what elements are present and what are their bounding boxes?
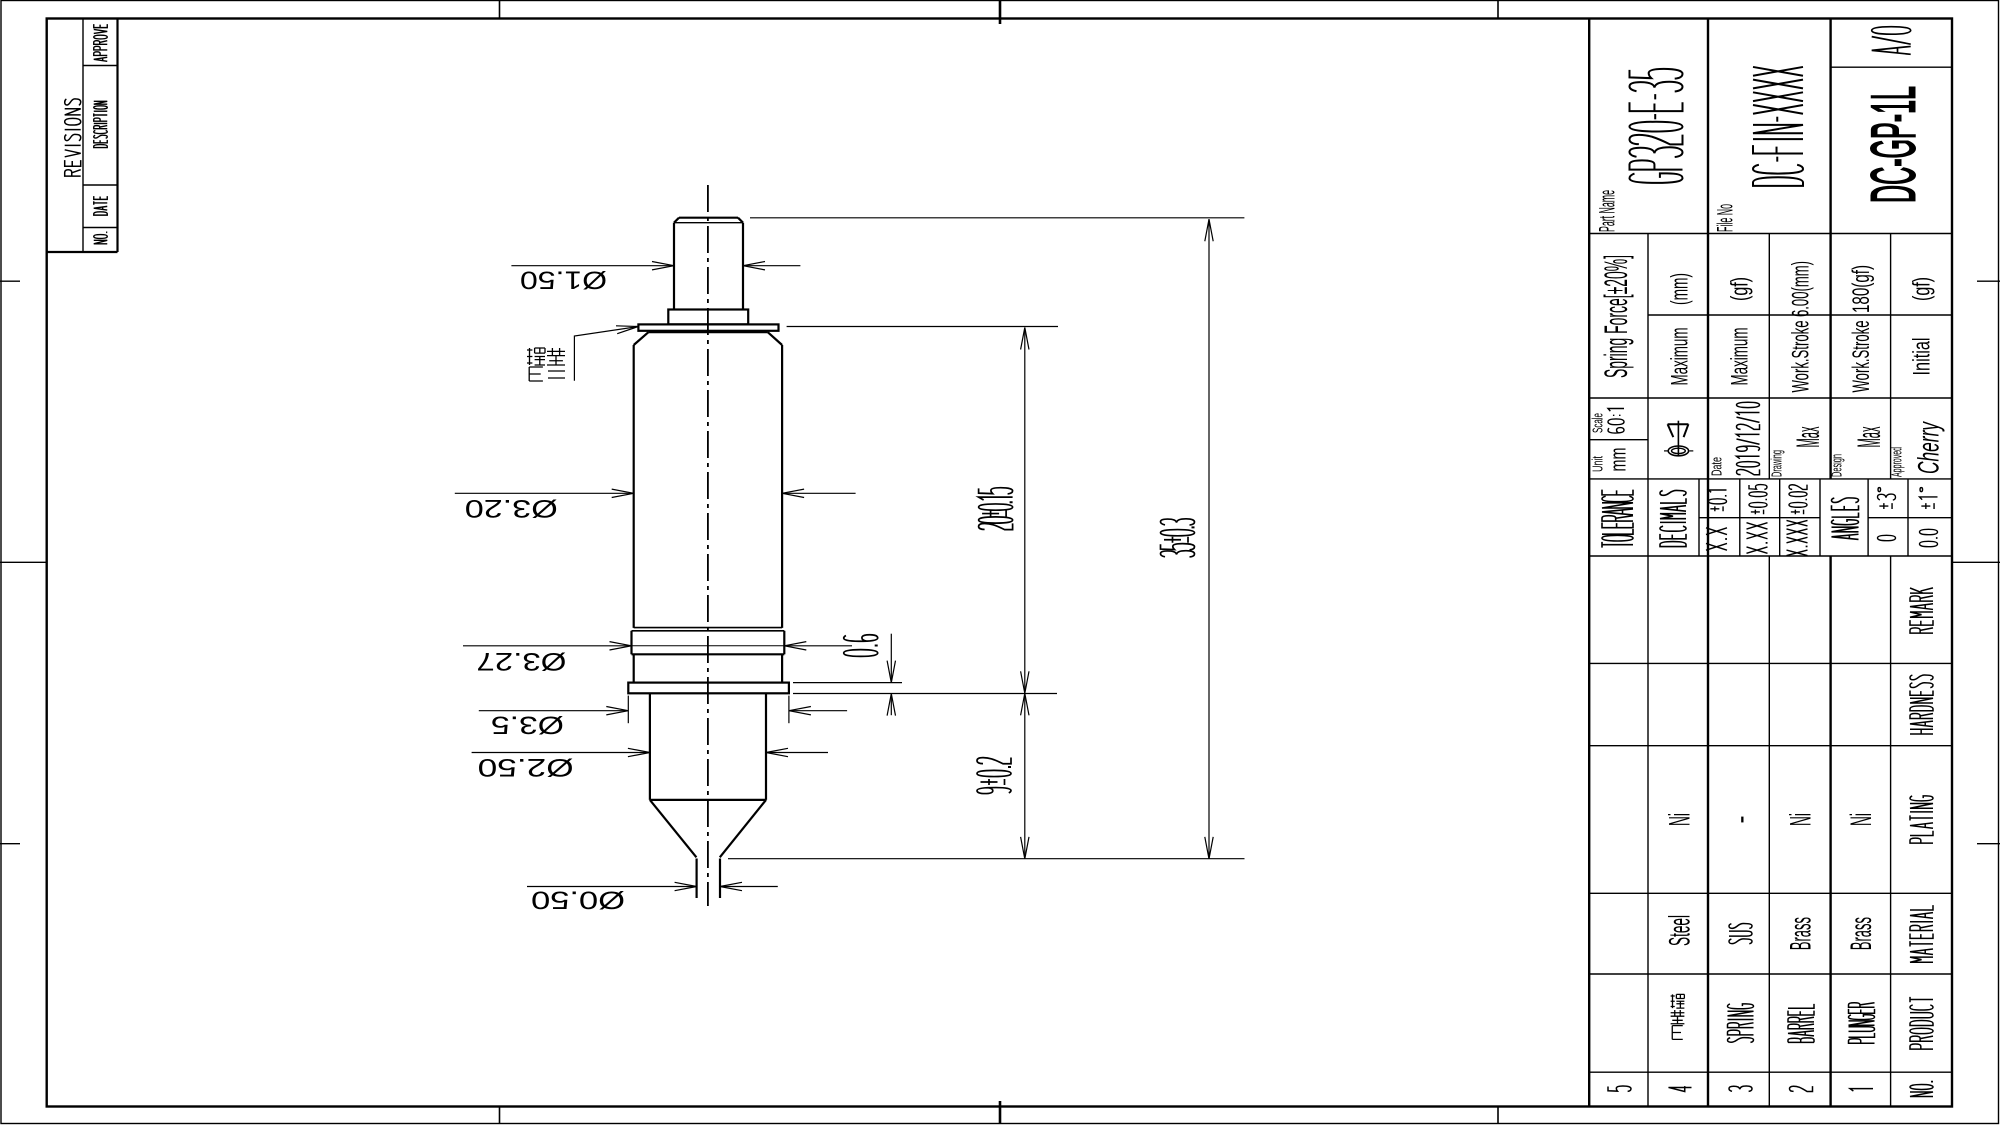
centerline axis	[707, 185, 709, 906]
parts list e-ring glyph E	[1672, 1026, 1683, 1040]
row A/0 divider	[1831, 66, 1952, 68]
DIMENSIONS	[455, 218, 1245, 891]
tolerance mid divider a	[1699, 517, 1820, 519]
cone base line	[650, 799, 766, 801]
REVISIONS-BLOCK	[47, 19, 118, 253]
arrow up at 20 top	[1021, 328, 1029, 350]
svg-text:Work.Stroke: Work.Stroke	[1788, 321, 1815, 393]
stroke text file no value DC-FIN-XXXX	[1753, 67, 1803, 186]
dim phi3.20 line right	[782, 492, 856, 494]
row partname bottom	[1589, 233, 1952, 235]
projection symbol	[1664, 421, 1693, 457]
stroke text PLUNGER	[1849, 1003, 1875, 1044]
svg-text:Part Name: Part Name	[1595, 190, 1620, 232]
arrow right at 633.7	[612, 489, 634, 497]
svg-text:mm: mm	[1606, 448, 1631, 472]
lower plunger side right	[765, 693, 767, 800]
arrow right at 631.5	[610, 642, 632, 650]
svg-text:Ni: Ni	[1785, 813, 1818, 826]
revisions column line 1	[82, 19, 84, 253]
stroke text XXX	[1747, 523, 1768, 554]
lower plunger side left	[649, 693, 651, 800]
tick right centre	[1952, 561, 2000, 563]
stroke text tol 01	[1709, 490, 1727, 511]
stroke text ang 0	[1878, 535, 1896, 540]
revisions column line 2	[116, 19, 118, 253]
plunger top face	[679, 217, 738, 219]
svg-text:Brass: Brass	[1845, 917, 1878, 950]
svg-text:Max: Max	[1851, 427, 1887, 448]
dim phi1.50 line left	[511, 265, 674, 267]
tick bottom quarter right	[1497, 1107, 1499, 1125]
svg-text:Work.Stroke: Work.Stroke	[1848, 321, 1875, 393]
dim 0.6 line lower	[890, 694, 892, 716]
PART-DRAWING	[628, 185, 789, 906]
groove top line	[634, 627, 782, 629]
svg-text:(mm): (mm)	[1667, 273, 1694, 305]
arrow left at 782.1	[782, 489, 804, 497]
arrow left at 784.3	[784, 642, 806, 650]
arrow left at 720	[720, 882, 742, 890]
revisions block bottom	[47, 251, 118, 253]
CJK-LABELS	[527, 348, 1684, 1039]
stroke text part name value GP320-E-35	[1630, 69, 1683, 183]
arrow down at 35 bottom	[1205, 837, 1213, 859]
vertical col C left thick	[1707, 19, 1709, 1107]
item4 E-ring cjk	[0, 0, 1, 1]
tolerance mid divider b	[1868, 517, 1952, 519]
ext line flange bottom	[793, 693, 1057, 695]
svg-text:Brass: Brass	[1785, 917, 1818, 950]
dim phi3.27 line right	[784, 645, 852, 647]
stroke text XX	[1706, 528, 1727, 550]
vertical col E left thick	[1829, 19, 1831, 479]
parts row material/product	[1589, 973, 1952, 975]
stroke text dim 35pm03	[1161, 519, 1195, 557]
stroke text DATE	[94, 196, 108, 215]
barrel top edge	[648, 331, 767, 333]
TITLE-BLOCK-TEXTS	[1590, 86, 1946, 477]
revisions row date/no	[83, 227, 118, 229]
tick left lower quarter	[0, 843, 20, 845]
tick top centre	[999, 0, 1002, 24]
svg-text:Design: Design	[1829, 454, 1846, 477]
dim phi3.27 line left	[463, 645, 632, 647]
svg-text:Ø3.5: Ø3.5	[491, 710, 564, 738]
barrel chamfer right	[768, 332, 782, 345]
barrel lower side right	[781, 654, 783, 682]
stroke text NO parts	[1910, 1081, 1933, 1096]
plunger top chamfer right	[738, 218, 743, 223]
barrel side right	[781, 345, 783, 628]
PARTS-LIST-TEXTS	[1664, 813, 1879, 950]
svg-text:(gf): (gf)	[1727, 277, 1754, 301]
plunger shoulder	[668, 310, 748, 325]
stroke text BARREL	[1788, 1004, 1814, 1043]
tick top quarter left	[499, 0, 501, 19]
cone right	[720, 800, 766, 857]
svg-text:-: -	[1724, 816, 1757, 824]
tick left upper quarter	[0, 280, 20, 282]
plunger top chamfer left	[674, 218, 679, 223]
arrow right at 696.6	[675, 882, 697, 890]
stroke text no2	[1790, 1086, 1813, 1091]
stroke text TOLERANCE	[1602, 490, 1633, 548]
vertical col B left	[1647, 234, 1649, 1107]
arrow down at 9 bottom	[1021, 837, 1029, 859]
e-ring leader label glyph type	[547, 348, 565, 365]
ext line barrel top	[787, 326, 1058, 328]
row maximum divider	[1648, 314, 1952, 316]
vertical col F left lower	[1890, 556, 1892, 1107]
svg-text:Ni: Ni	[1845, 813, 1878, 826]
svg-text:Drawing: Drawing	[1769, 450, 1786, 477]
stroke text tol 002	[1789, 485, 1807, 515]
stroke text PRODUCT	[1910, 997, 1933, 1049]
tip side left	[695, 859, 697, 899]
crimp band side left	[630, 631, 632, 655]
svg-text:DC-GP-1L: DC-GP-1L	[1860, 86, 1929, 203]
stroke text PLATING	[1910, 796, 1933, 843]
ext line pin top	[750, 217, 1244, 219]
tick right lower quarter	[1977, 843, 2000, 845]
TITLE-BLOCK-GRID	[1589, 19, 1952, 1107]
svg-text:Approved: Approved	[1889, 447, 1906, 477]
arrow right at 628.3	[606, 707, 628, 715]
stroke text SPRING	[1728, 1004, 1754, 1042]
svg-text:Ø3.27: Ø3.27	[476, 647, 566, 675]
phi3.5 ext line right	[788, 696, 790, 724]
stroke text tol 005	[1749, 485, 1767, 515]
plunger side right	[742, 223, 744, 310]
stroke text no1	[1850, 1089, 1873, 1091]
vertical col F left	[1890, 234, 1892, 479]
arrow down at 0.6 top	[887, 661, 895, 683]
arrow right at 649.9	[628, 748, 650, 756]
ext line tip end	[728, 858, 1245, 860]
e-ring leader label glyph E	[529, 367, 543, 381]
dim phi0.50 line right	[720, 886, 778, 888]
stroke text MATERIAL	[1910, 905, 1933, 962]
stroke text ANGLES	[1832, 498, 1859, 540]
barrel chamfer left	[634, 332, 649, 345]
stroke text DESCRIPTION	[94, 101, 108, 147]
row scale/unit divider	[1589, 439, 1648, 441]
svg-text:Date: Date	[1709, 457, 1726, 476]
arrow up at 0.6 bottom	[887, 694, 895, 716]
tick bottom quarter left	[499, 1107, 501, 1125]
tip side right	[719, 859, 721, 899]
cone left	[650, 800, 697, 857]
svg-text:Steel: Steel	[1664, 915, 1697, 946]
dim phi3.5 line right	[789, 710, 847, 712]
stroke text ang pm3	[1878, 488, 1896, 509]
parts row product/no	[1589, 1071, 1952, 1073]
svg-text:6.00(mm): 6.00(mm)	[1788, 261, 1815, 317]
dim phi3.20 line left	[455, 492, 634, 494]
e-ring leader label dashes	[548, 371, 565, 378]
svg-text:File No: File No	[1713, 204, 1738, 232]
parts list e-ring glyph type	[1671, 1010, 1685, 1024]
arrow left at 766	[766, 748, 788, 756]
ext line flange top	[793, 682, 902, 684]
stroke text XXXX	[1787, 520, 1808, 555]
vertical col D left	[1768, 234, 1770, 479]
tick bottom centre	[999, 1101, 1002, 1124]
bottom flange	[628, 683, 789, 694]
stroke text rev value A/0	[1872, 27, 1911, 55]
stroke text REVISIONS	[65, 99, 81, 176]
stroke text HARDNESS	[1910, 675, 1933, 734]
svg-text:Spring Force[±20%]: Spring Force[±20%]	[1598, 255, 1634, 378]
stroke text DECIMALS	[1660, 490, 1686, 546]
dim phi3.5 line left	[479, 710, 629, 712]
stroke text no5	[1608, 1086, 1631, 1091]
stroke text SUS	[1729, 924, 1752, 944]
stroke text APPROVE	[94, 24, 108, 61]
parts row plating/material	[1589, 892, 1952, 894]
vertical col D left lower	[1768, 556, 1770, 1107]
svg-text:Ø3.20: Ø3.20	[465, 494, 558, 522]
arrow up at 9 top	[1021, 693, 1029, 715]
DIMENSION-TEXTS	[465, 266, 625, 914]
svg-text:Ø1.50: Ø1.50	[520, 266, 607, 294]
e-ring leader label glyph ring	[527, 348, 545, 365]
leader line e-ring	[574, 327, 638, 381]
tick right upper quarter	[1977, 280, 2000, 282]
row tolerance bottom	[1589, 555, 1952, 557]
stroke text dim 9pm02	[977, 758, 1011, 794]
row spring band bottom	[1589, 397, 1952, 399]
vertical col E left lower	[1829, 556, 1831, 1107]
stroke text ang pm1	[1920, 488, 1938, 509]
svg-text:Scale: Scale	[1590, 413, 1607, 433]
arrow left at 743	[743, 262, 765, 270]
revisions row approve/description	[83, 65, 118, 67]
plunger side left	[673, 223, 675, 310]
parts row hardness/plating	[1589, 745, 1952, 747]
parts row remark/hardness	[1589, 662, 1952, 664]
svg-text:(gf): (gf)	[1909, 277, 1936, 301]
barrel side left	[633, 345, 635, 628]
stroke text dim 20pm015	[979, 488, 1013, 530]
arrow left at 788.9	[789, 707, 811, 715]
crimp band side right	[783, 631, 785, 655]
svg-text:Max: Max	[1790, 427, 1826, 448]
svg-text:Ø2.50: Ø2.50	[478, 753, 574, 781]
leader arrowhead	[616, 326, 638, 334]
stroke text scale value 60:1	[1608, 408, 1624, 433]
svg-text:Maximum: Maximum	[1667, 328, 1694, 386]
row date band bottom	[1589, 478, 1952, 480]
stroke text ang 00	[1920, 529, 1938, 546]
dim phi0.50 line left	[527, 886, 697, 888]
crimp band bottom	[632, 653, 785, 655]
svg-text:180(gf): 180(gf)	[1848, 265, 1875, 313]
arrow down at 20 bottom	[1021, 671, 1029, 693]
revisions row description/date	[83, 184, 118, 186]
phi3.5 ext line left	[627, 696, 629, 724]
svg-text:Ø0.50: Ø0.50	[531, 886, 625, 914]
arrow right at 674	[652, 262, 674, 270]
e-ring flange	[638, 324, 778, 330]
tolerance cols	[1698, 479, 1700, 556]
svg-text:Unit: Unit	[1590, 456, 1607, 472]
tick top quarter right	[1497, 0, 1499, 19]
dim 35 line	[1208, 219, 1210, 859]
arrow up at 35 top	[1205, 219, 1213, 241]
dim 0.6 line upper	[890, 634, 892, 683]
stroke text no3	[1729, 1086, 1752, 1091]
barrel lower side left	[633, 654, 635, 682]
stroke text date value 2019/12/10	[1737, 402, 1760, 474]
plunger chamfer base line	[674, 222, 743, 224]
title block left edge	[1588, 19, 1590, 1107]
svg-text:Maximum: Maximum	[1727, 328, 1754, 386]
stroke text dim 06	[844, 635, 878, 657]
parts list e-ring glyph ring	[1671, 994, 1685, 1039]
dim phi2.50 line left	[472, 752, 650, 754]
svg-text:Initial: Initial	[1909, 338, 1936, 376]
dim phi2.50 line right	[766, 752, 828, 754]
stroke text REMARK	[1910, 588, 1933, 633]
tick left centre	[0, 561, 47, 563]
dim 20/9 shared line	[1024, 328, 1026, 859]
svg-text:Cherry: Cherry	[1913, 421, 1946, 474]
svg-text:Ni: Ni	[1664, 813, 1697, 826]
stroke text NO rev	[94, 232, 108, 244]
dim phi1.50 line right	[743, 265, 800, 267]
crimp band top	[632, 630, 785, 632]
stroke text no4	[1669, 1086, 1692, 1091]
